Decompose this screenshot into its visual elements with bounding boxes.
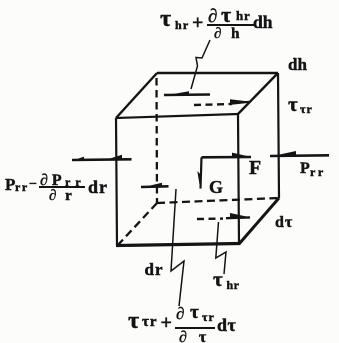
node label dh	[288, 56, 307, 73]
node label d-tau right bottom	[275, 215, 293, 231]
node label G	[209, 178, 223, 196]
wire bottom right diagonal H-G	[239, 198, 279, 244]
node label Prr right	[300, 161, 310, 177]
arrow bottom face dashed (points right)	[197, 213, 251, 219]
wire hidden bottom left diagonal E-F (dashed)	[117, 203, 157, 246]
node label tau_tr right side	[288, 94, 298, 115]
wire top right diagonal B-D	[238, 73, 278, 114]
wire leader from top formula to top face	[191, 40, 210, 89]
arrow top face dashed (points right)	[194, 99, 249, 105]
wire front right vertical D-H	[238, 114, 239, 244]
node left formula Prr - dPrr/dr * dr	[5, 176, 15, 193]
wire top left diagonal A-C	[116, 73, 157, 118]
node top formula tau_hr + d(tau_hr)/dh * dh	[160, 7, 171, 31]
wire leader zigzag to tau_hr label	[216, 222, 226, 274]
arrow tau_hr top face (solid, points left)	[164, 91, 210, 95]
arrow Prr right face (points left)	[270, 151, 329, 156]
node label dr bottom left	[145, 261, 164, 278]
wire front bottom edge F-H	[116, 244, 240, 246]
node label F	[249, 158, 261, 178]
arrow hidden left mid (points left)	[141, 183, 169, 188]
wire front left vertical C-F	[116, 118, 117, 246]
node bottom formula tau_tr + d(tau_tr)/d-tau * d-tau	[128, 309, 139, 333]
node label tau_hr bottom	[213, 269, 223, 290]
wire top back edge A-B	[157, 72, 278, 74]
wire hidden bottom back edge E-G (dashed)	[157, 198, 279, 203]
arrow Prr left face (points left into label side)	[72, 155, 132, 161]
arrow G (vertical, points down)	[197, 157, 201, 189]
wire hidden back left vertical A-E (dashed)	[155, 78, 158, 203]
wire leader zigzag to dr and bottom formula	[171, 189, 184, 306]
wire back right vertical B-G	[278, 73, 279, 198]
arrow F (points right)	[202, 153, 252, 158]
wire front top edge C-D	[116, 114, 238, 118]
